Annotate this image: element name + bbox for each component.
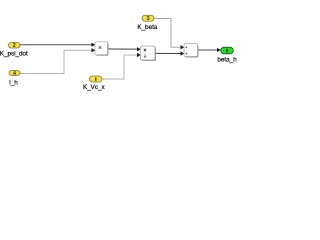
sum plus sign 2 <box>185 53 187 55</box>
divide block U2 shadow <box>142 47 157 61</box>
product symbol x <box>99 46 102 49</box>
outport 1 beta_h <box>221 47 234 54</box>
pin number 1 <box>94 78 97 81</box>
svg-text:K_Vc_x: K_Vc_x <box>83 84 106 91</box>
divide block U2 <box>141 46 156 60</box>
sum plus sign 1 <box>185 46 187 48</box>
inport 3 <box>142 15 154 21</box>
svg-text:2: 2 <box>13 43 16 49</box>
product block U1 <box>95 42 108 55</box>
wire product out to divide in1 <box>108 48 138 50</box>
inport 4 <box>9 71 20 76</box>
wire port2 to product in1 <box>20 44 92 46</box>
divide symbol division <box>144 55 146 57</box>
wire divide out to sum in2 <box>155 52 181 54</box>
sum block U3 <box>184 44 198 57</box>
inport 2 <box>9 43 21 49</box>
svg-text:l_h: l_h <box>9 80 18 87</box>
inport 1 <box>90 76 103 82</box>
svg-text:beta_h: beta_h <box>217 56 237 63</box>
svg-text:K_beta: K_beta <box>137 24 157 31</box>
wire port3 K_beta to sum in1 <box>154 19 181 48</box>
wire port4 l_h to product in2 <box>20 50 92 73</box>
product block U1 shadow <box>96 43 109 56</box>
svg-text:3: 3 <box>146 16 149 22</box>
svg-text:K_psi_dot: K_psi_dot <box>0 51 28 58</box>
wire port1 K_Vc_x to divide in2 <box>102 55 138 79</box>
wire sum out to outport beta_h <box>198 49 218 51</box>
sum block U3 shadow <box>185 45 199 58</box>
divide symbol x <box>144 49 147 52</box>
pin number 1 <box>226 49 229 53</box>
